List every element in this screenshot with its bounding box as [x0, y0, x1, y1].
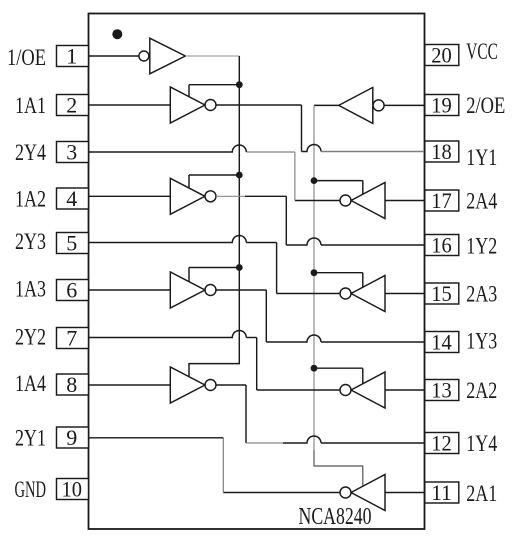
svg-text:GND: GND — [15, 477, 47, 502]
svg-text:19: 19 — [431, 92, 452, 117]
svg-text:2A1: 2A1 — [466, 481, 497, 506]
svg-text:20: 20 — [431, 42, 452, 67]
svg-text:2A3: 2A3 — [466, 281, 497, 306]
svg-text:17: 17 — [431, 188, 452, 213]
svg-text:16: 16 — [431, 232, 452, 257]
svg-text:6: 6 — [66, 277, 77, 302]
svg-text:7: 7 — [66, 325, 77, 350]
svg-text:2Y1: 2Y1 — [15, 425, 46, 450]
svg-text:8: 8 — [66, 372, 77, 397]
svg-text:13: 13 — [431, 377, 452, 402]
svg-text:2A4: 2A4 — [466, 188, 497, 213]
svg-text:1A4: 1A4 — [15, 371, 46, 396]
svg-text:2Y2: 2Y2 — [15, 324, 46, 349]
svg-text:2Y3: 2Y3 — [15, 229, 46, 254]
svg-text:2/OE: 2/OE — [466, 93, 505, 118]
svg-text:15: 15 — [431, 281, 452, 306]
svg-text:1: 1 — [66, 43, 77, 68]
svg-text:11: 11 — [431, 480, 452, 505]
svg-text:1Y2: 1Y2 — [466, 234, 497, 259]
svg-text:2: 2 — [66, 92, 77, 117]
svg-text:2Y4: 2Y4 — [15, 140, 46, 165]
svg-text:3: 3 — [66, 139, 77, 164]
svg-text:VCC: VCC — [466, 39, 498, 64]
svg-text:1/OE: 1/OE — [7, 45, 46, 70]
svg-text:1Y3: 1Y3 — [466, 329, 497, 354]
svg-text:18: 18 — [431, 139, 452, 164]
svg-text:NCA8240: NCA8240 — [299, 504, 372, 530]
svg-text:14: 14 — [431, 329, 452, 354]
svg-text:1A2: 1A2 — [15, 186, 46, 211]
svg-text:12: 12 — [431, 430, 452, 455]
svg-text:4: 4 — [66, 186, 77, 211]
svg-text:10: 10 — [62, 476, 83, 501]
svg-text:5: 5 — [66, 230, 77, 255]
svg-text:1A1: 1A1 — [15, 93, 46, 118]
svg-text:2A2: 2A2 — [466, 378, 497, 403]
svg-text:1Y4: 1Y4 — [466, 431, 497, 456]
svg-text:1Y1: 1Y1 — [466, 145, 497, 170]
svg-text:1A3: 1A3 — [15, 277, 46, 302]
svg-text:9: 9 — [66, 425, 77, 450]
